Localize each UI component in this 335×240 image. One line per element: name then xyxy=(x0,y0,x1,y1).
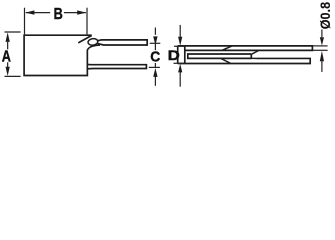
svg-text:D: D xyxy=(168,48,180,63)
svg-text:B: B xyxy=(54,6,63,23)
svg-text:Ø0.8: Ø0.8 xyxy=(317,2,333,30)
svg-text:A: A xyxy=(2,48,11,65)
svg-text:C: C xyxy=(150,50,160,66)
